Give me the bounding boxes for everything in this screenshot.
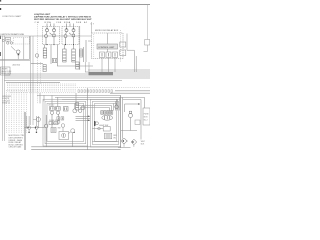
svg-text:LIGHT SW: LIGHT SW xyxy=(99,125,108,127)
svg-text:CONTROL UNIT: CONTROL UNIT xyxy=(98,47,115,49)
svg-text:SW: SW xyxy=(58,128,61,130)
svg-text:MICRO ISO RELAY BOX: MICRO ISO RELAY BOX xyxy=(95,29,119,32)
svg-text:RELAY BOX: RELAY BOX xyxy=(1,72,12,75)
svg-text:C 6 B: C 6 B xyxy=(56,22,62,24)
svg-text:No.2: No.2 xyxy=(144,120,148,122)
svg-text:A 1 B 2: A 1 B 2 xyxy=(49,104,55,107)
svg-text:B 12 A: B 12 A xyxy=(45,21,52,24)
svg-text:CIRCUIT DIAG: CIRCUIT DIAG xyxy=(9,146,22,149)
svg-text:FUSE: FUSE xyxy=(144,114,150,116)
svg-text:B 10 A: B 10 A xyxy=(64,21,71,24)
svg-text:BAT FUSE: BAT FUSE xyxy=(14,33,25,36)
svg-text:D 4 B: D 4 B xyxy=(76,22,82,24)
svg-text:PAGE 12: PAGE 12 xyxy=(3,102,10,105)
svg-text:CONDITION CHART: CONDITION CHART xyxy=(2,15,22,18)
svg-text:WHT RED GRN BLK YEL BLU WHT GR: WHT RED GRN BLK YEL BLU WHT GRN RED BLK … xyxy=(34,19,92,21)
svg-text:IGNITION SW: IGNITION SW xyxy=(1,34,14,36)
svg-text:A22 B14: A22 B14 xyxy=(13,64,22,67)
